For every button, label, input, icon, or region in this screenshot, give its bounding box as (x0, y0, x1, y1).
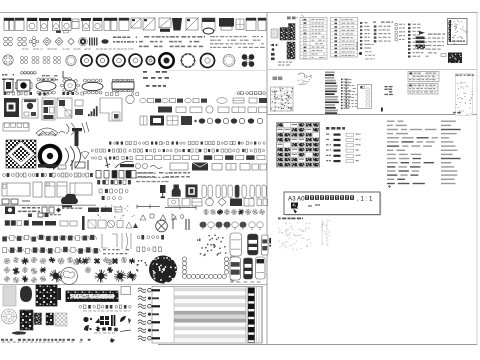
note mark (105, 158, 110, 168)
left inner divider y205 (0, 204, 96, 206)
symbol pair column A (373, 22, 393, 43)
bed tall 3 (57, 182, 67, 197)
framed block (186, 185, 198, 198)
size spec title (326, 127, 345, 130)
small wedge (81, 152, 89, 160)
table A section C (408, 72, 439, 82)
dark bars row13 (88, 207, 122, 212)
dark ring target (40, 146, 60, 166)
checkered carpet block (6, 140, 36, 168)
gray lattice panel (55, 313, 67, 326)
right text block D col2 (441, 121, 461, 185)
small pair row13b (28, 213, 61, 217)
bottom border line (158, 344, 477, 346)
dark tree 2 (95, 273, 106, 279)
symbol list column C (408, 24, 429, 58)
A3 box icon glyph (291, 203, 298, 214)
sofa set D (57, 98, 72, 118)
dark tree 1 (50, 273, 62, 279)
table B section C (408, 84, 438, 95)
caption above divider right (453, 112, 461, 114)
small plate (58, 165, 66, 169)
left inner divider y284 (0, 284, 267, 286)
car B row15 (244, 258, 253, 279)
scribble text row13 (18, 207, 40, 212)
faint divider y70 left panel (167, 70, 267, 72)
dining table row (4, 78, 134, 95)
plan thumbnail top right (448, 19, 468, 45)
left text items section C (346, 79, 358, 108)
sparse pair glyphs right row14 (137, 235, 164, 252)
stair marks (88, 106, 98, 116)
dense glyph row9 line2 (91, 149, 265, 152)
second list column section C (341, 79, 351, 110)
ornate block 3 (46, 313, 54, 325)
dense glyph row9 line3 (91, 156, 265, 160)
tiny glyph row under runner (79, 305, 131, 309)
micro text line row2 (22, 49, 133, 50)
car half right (262, 235, 269, 255)
tiny text block A row2 (113, 37, 137, 43)
dense list column section C (325, 72, 339, 115)
small box right of runner (121, 287, 131, 295)
text cluster mid section C (385, 86, 393, 95)
small star mark (110, 338, 115, 343)
tiny text above vases (136, 173, 176, 183)
scalloped bar (231, 256, 235, 281)
gear circle row (3, 53, 255, 69)
tiny glyph line y92 (4, 92, 266, 96)
right border line (476, 13, 478, 346)
bed tall 2 (45, 182, 55, 197)
section C table (271, 87, 294, 111)
sanitary block row (4, 18, 266, 34)
box row right y198 (168, 198, 268, 206)
circle-x symbol (156, 220, 168, 232)
arc marks row8 (66, 122, 89, 135)
curve and strip (115, 161, 134, 168)
car outline vertical (230, 233, 242, 256)
arc fan (65, 144, 81, 168)
dense glyph row9 line1 (109, 142, 265, 145)
tiny text mid row13 (62, 208, 82, 209)
dark tree 4 (128, 272, 134, 280)
small marks left row12 (2, 199, 30, 204)
top border line (0, 12, 478, 14)
small sofa row 7c (140, 116, 263, 126)
scatter dots near trees (136, 260, 147, 271)
dark arrow glyph (419, 31, 425, 35)
dark bottle (172, 185, 181, 197)
dark exclamation mark (269, 238, 271, 247)
dark tick section C (381, 108, 383, 112)
light scatter row13 (97, 205, 135, 219)
small sofa row 7b (158, 106, 267, 113)
legend title scribble (287, 15, 304, 21)
micro text under glyphs (83, 310, 130, 313)
small tree row B (200, 222, 263, 230)
ornate dark panel (36, 285, 57, 306)
dark row13c (5, 216, 138, 230)
floor lamp dark (160, 185, 166, 198)
car C row15 (256, 257, 266, 279)
ornate runner carpet (66, 291, 118, 302)
bracket marks row13 (173, 219, 189, 230)
ornate column 1 (20, 310, 33, 330)
bracket tall glyphs (102, 233, 131, 249)
text block C row2 (210, 36, 265, 48)
sparse marks row4 (2, 71, 169, 87)
ornate column 2 (34, 313, 42, 325)
narrow dark rect (58, 288, 62, 300)
small boxes row13 (42, 207, 61, 213)
dimension lines row13 (137, 205, 196, 210)
legend text pairs right (428, 34, 445, 54)
box row9 line4 (135, 163, 266, 171)
right sheet divider y70 (267, 69, 477, 71)
small chairs column (75, 100, 83, 115)
svg-text:, 1 : 1: , 1 : 1 (357, 196, 373, 203)
dark pillar (72, 128, 82, 146)
car dark vertical (248, 234, 259, 255)
small tree row A (203, 209, 265, 215)
big dense tree (149, 256, 178, 284)
valve symbol row (4, 37, 109, 47)
glyph text line y173 (3, 171, 190, 179)
bracket box H (72, 160, 88, 170)
knob cluster row1 (83, 315, 131, 326)
plus mark right of box (388, 185, 391, 188)
section C title (273, 77, 283, 81)
symbol pair column B (395, 24, 405, 41)
small items right of beds (97, 180, 131, 200)
car captions (230, 282, 260, 283)
faint sketch strip (321, 219, 330, 246)
symbol list column 1 (360, 22, 370, 49)
right speckled strip (456, 74, 475, 116)
legend small block left (271, 29, 278, 38)
faint sketch left (278, 222, 311, 250)
bench row8 (3, 123, 29, 131)
knob cluster row2 (84, 325, 131, 333)
faint divider y93 left panel (235, 93, 267, 95)
A3 note box (284, 192, 381, 215)
vase row (202, 185, 266, 198)
right sheet divider y114 (267, 114, 477, 116)
car A row15 (230, 257, 241, 280)
dark tree 3 (114, 274, 125, 278)
dark cloud blob (61, 194, 78, 208)
gray material square (3, 286, 16, 306)
dark round blob (20, 286, 32, 302)
right text block D col1 (387, 121, 438, 185)
curved sofa row8 (36, 128, 58, 136)
striped machine panel (152, 287, 262, 344)
mandala circle (2, 309, 17, 324)
legend small marks column (270, 44, 292, 66)
sofa set dark block (4, 98, 19, 117)
bed tall 1 (33, 182, 42, 197)
photo dark block (441, 53, 462, 64)
A3 box small marks (308, 205, 320, 206)
sofa set B (22, 99, 38, 118)
text block B row2 (139, 36, 205, 47)
L-sofa outline (100, 98, 122, 121)
people glyph row 1 (3, 235, 97, 241)
note text bottom left (1, 339, 90, 343)
svg-text:A3 A0: A3 A0 (288, 196, 305, 203)
dark appliance (5, 207, 15, 215)
caption above divider left (325, 112, 335, 114)
coil symbol column (138, 288, 160, 341)
material table (277, 123, 320, 168)
circle glyph row7 (126, 95, 134, 103)
dark bars legend (416, 37, 426, 49)
dark arrow strip (38, 163, 58, 170)
house marks row8 (39, 131, 65, 135)
legend table 1 (300, 18, 327, 60)
caption under A3 box (278, 218, 303, 220)
small sofa row 7a (140, 98, 267, 104)
marks under sanitary row (56, 31, 61, 33)
tree field left (4, 257, 135, 283)
legend thumbnail 2 (289, 24, 296, 41)
section C script scribble (298, 73, 312, 85)
scalloped U wall (182, 257, 228, 279)
bed wide 1 (2, 183, 30, 196)
left panel right border (266, 13, 268, 346)
bed wide 2 (70, 183, 92, 195)
pen dart glyph (10, 331, 27, 335)
people glyph row 2 (3, 247, 129, 254)
sofa set C (42, 98, 55, 120)
stone path scatter (197, 235, 226, 257)
legend thumbnail 1 (280, 28, 288, 41)
legend thumbnail 3 (287, 42, 295, 59)
lamp symbols row13 (140, 214, 184, 220)
size spec rows (326, 133, 361, 163)
legend table 2 (331, 18, 358, 58)
left column small marks section B (357, 42, 375, 59)
big light circle tree (61, 268, 78, 285)
outlined box section C (358, 85, 372, 109)
